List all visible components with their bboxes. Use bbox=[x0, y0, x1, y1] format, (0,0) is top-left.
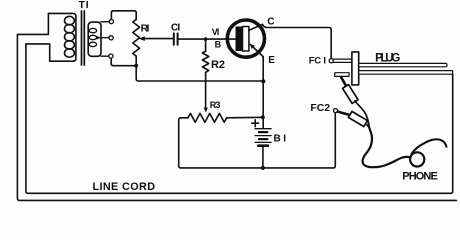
svg-text:PHONE: PHONE bbox=[402, 171, 438, 183]
svg-text:FC2: FC2 bbox=[310, 102, 330, 114]
svg-text:LINE CORD: LINE CORD bbox=[93, 181, 156, 193]
svg-text:C: C bbox=[267, 16, 274, 27]
svg-text:B I: B I bbox=[274, 134, 287, 145]
svg-text:CI: CI bbox=[171, 23, 180, 34]
svg-text:R3: R3 bbox=[210, 100, 221, 110]
svg-text:R2: R2 bbox=[211, 59, 225, 71]
svg-text:FC I: FC I bbox=[309, 55, 326, 66]
svg-text:E: E bbox=[268, 55, 275, 66]
svg-text:TI: TI bbox=[79, 0, 89, 11]
svg-text:RI: RI bbox=[141, 23, 150, 35]
svg-text:B: B bbox=[215, 39, 222, 49]
svg-text:PLUG: PLUG bbox=[375, 52, 400, 64]
svg-text:VI: VI bbox=[212, 27, 220, 37]
